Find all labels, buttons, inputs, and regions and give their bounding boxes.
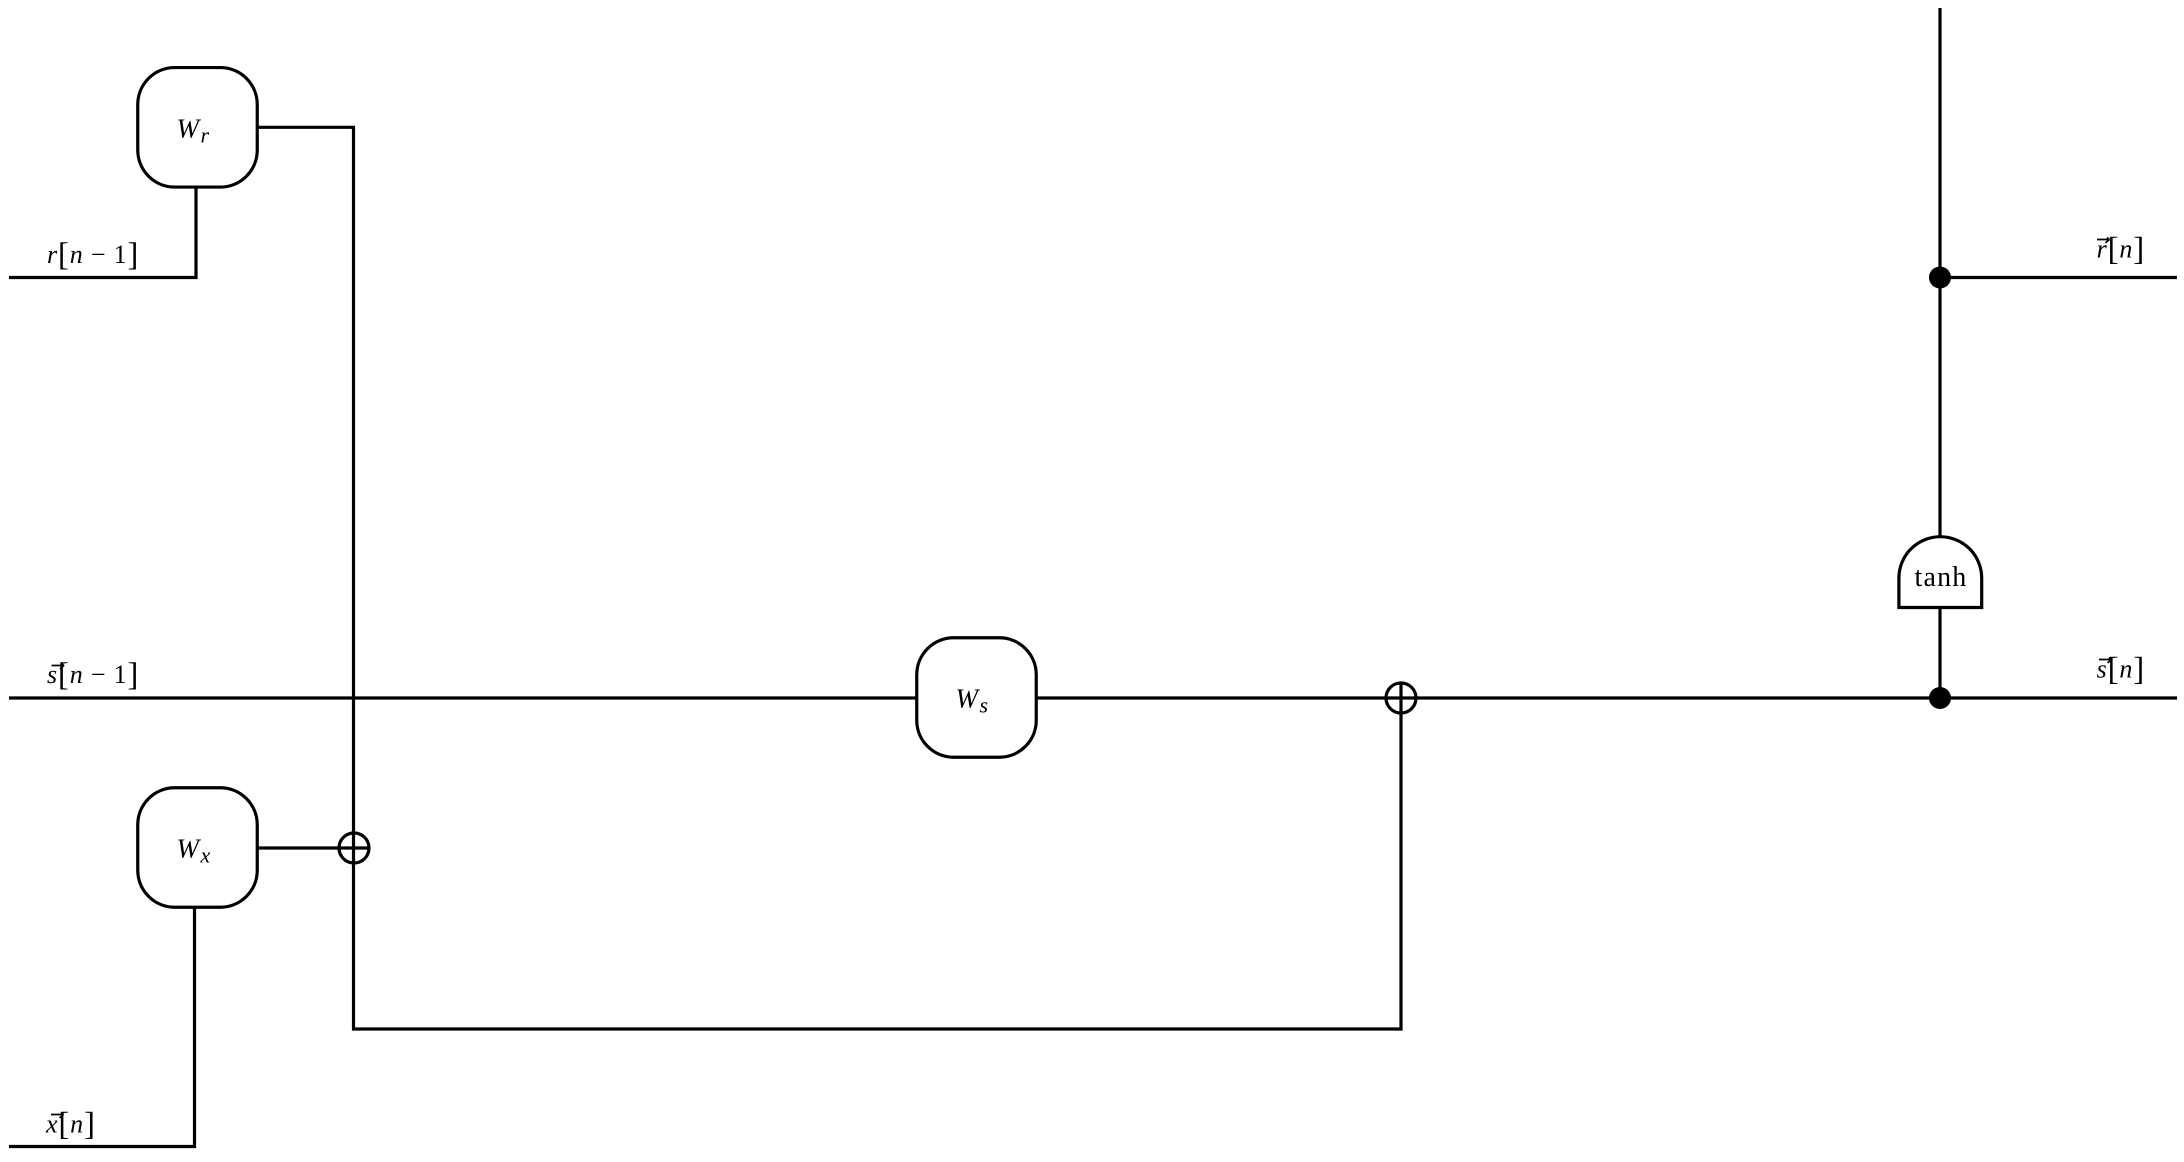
wire tanh output down to s line <box>1938 607 1941 698</box>
wire x[n] input <box>9 908 195 1147</box>
node dot s[n] <box>1929 687 1951 709</box>
svg-text:s[n − 1]: s[n − 1] <box>47 657 139 693</box>
svg-text:x[n]: x[n] <box>45 1107 96 1143</box>
svg-text:tanh: tanh <box>1914 562 1967 593</box>
svg-text:r[n]: r[n] <box>2097 232 2145 268</box>
wire W_x output into adder1 <box>257 846 370 849</box>
vec arrow over s <box>2099 658 2112 663</box>
block W_s <box>917 638 1037 758</box>
block W_x <box>138 788 258 908</box>
wire r[n-1] input <box>9 188 196 278</box>
block W_r <box>138 68 258 188</box>
svg-text:Wx: Wx <box>177 834 211 868</box>
vec arrow over s <box>52 664 65 669</box>
adder oplus1 <box>339 833 369 863</box>
wire r[n] output <box>1940 276 2177 279</box>
block tanh <box>1899 537 1982 608</box>
vec arrow over x <box>51 1113 64 1118</box>
wire s[n-1] line left <box>9 696 917 699</box>
svg-text:r[n − 1]: r[n − 1] <box>47 237 139 273</box>
node dot r[n] <box>1929 267 1951 289</box>
svg-text:Wr: Wr <box>177 114 210 148</box>
wire s line right through adder2 to s[n] <box>1036 696 2177 699</box>
vec arrow over r <box>2097 238 2110 243</box>
svg-text:Ws: Ws <box>956 684 989 718</box>
wire W_r output down through adder1, bottom bus, up to adder2 <box>257 127 1401 1029</box>
wire top vertical into r[n] node and tanh <box>1938 8 1941 537</box>
svg-text:s[n]: s[n] <box>2097 652 2145 688</box>
adder oplus2 <box>1386 683 1416 713</box>
